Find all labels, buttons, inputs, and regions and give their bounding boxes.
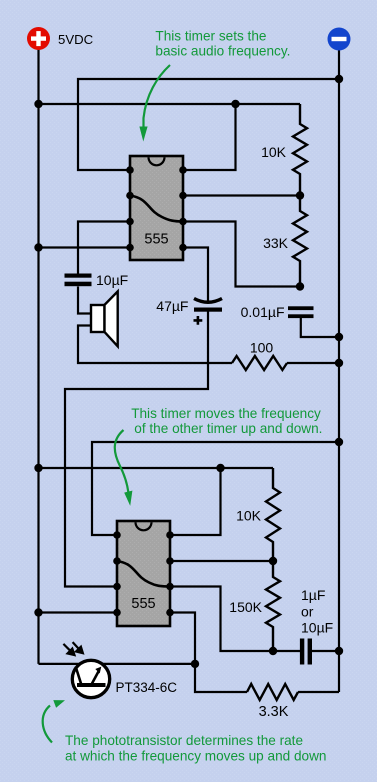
wire +5V row to 10K2 top [39,467,274,469]
wire 100 resistor to minus rail [287,362,339,364]
wire IC1 pin L4 to +5V rail [39,246,131,248]
svg-text:100: 100 [250,340,274,356]
resistor R2 33K [293,196,307,287]
capacitor C1 10uF plates [65,274,92,287]
wire IC1 pin R3 to 33K bottom [183,222,300,287]
wire speaker bottom terminal to 100 resistor [78,326,232,364]
annotation top arrow [144,65,171,127]
svg-text:at which the frequency moves u: at which the frequency moves up and down [65,749,326,764]
svg-text:10K: 10K [236,508,262,524]
wire 10K bottom to IC1 pin R2 [183,194,300,196]
svg-text:This timer moves the frequency: This timer moves the frequency [131,406,321,421]
capacitor C2 47uF polarized [194,299,223,325]
svg-text:basic audio frequency.: basic audio frequency. [155,44,290,59]
svg-text:or: or [301,604,314,620]
wire IC1 pin R4 to 47uF top [183,248,208,302]
phototransistor Q1 PT334-6C [72,660,109,697]
wire phototransistor row [39,663,196,665]
svg-text:47µF: 47µF [156,298,188,314]
speaker SP1 [91,291,118,346]
svg-text:This timer sets the: This timer sets the [155,28,266,43]
svg-text:10µF: 10µF [301,620,333,636]
wire +5V rail [37,49,39,664]
wire to IC1 pin R1 [183,104,236,170]
capacitor C4 1uF/10uF plates [300,639,312,665]
svg-text:3.3K: 3.3K [259,704,289,720]
capacitor C3 0.01uF plates [288,306,314,318]
wire node to 3.3K [195,664,247,692]
svg-text:0.01µF: 0.01µF [241,304,285,320]
svg-text:555: 555 [131,596,155,612]
svg-text:5VDC: 5VDC [58,32,94,47]
annotation middle arrow [115,430,129,492]
light arrows into phototransistor [63,642,83,655]
svg-text:1µF: 1µF [301,587,325,603]
resistor R1 10K [293,104,307,196]
resistor R5 150K [266,561,280,651]
op-amp U1 555 body [130,156,183,260]
wire 47uF bottom to IC2 pin L3 [65,312,208,587]
+5V terminal [27,27,50,50]
wire 10K2 bottom to IC2 pin R2 [170,560,273,562]
wire 150K bottom to 1uF cap [273,650,300,652]
U1 pin dots [126,166,187,251]
op-amp U2 555 body [117,521,170,626]
minus terminal [328,28,351,51]
svg-text:150K: 150K [229,599,262,615]
svg-text:The phototransistor determines: The phototransistor determines the rate [65,733,303,748]
svg-text:10K: 10K [261,144,287,160]
wire IC2 pin L4 to +5V rail [39,611,118,613]
wire IC2 pin R4 down to node [170,613,195,664]
wire IC1 ground loop to pin L1 [78,79,339,170]
wire IC1 pin L3 to 10uF top [78,222,130,274]
wire 10uF bottom to speaker top terminal [78,287,91,314]
wire 3.3K to minus rail [298,691,339,693]
wire to IC2 pin R1 [170,468,221,535]
annotation bottom arrow [43,706,52,743]
wire IC2 ground loop to pin L1 [92,442,339,535]
wire minus rail [338,50,340,692]
wire IC2 pin R3 to 150K bottom [170,587,273,652]
resistor R6 3.3K [247,684,298,700]
svg-text:of the other timer up and down: of the other timer up and down. [134,421,322,436]
U2 pin dots [113,531,174,616]
resistor R3 100 [232,356,287,370]
svg-text:555: 555 [144,232,168,248]
wire +5V to 10K top [39,103,301,105]
wire 0.01uF bottom to minus rail [301,318,339,337]
svg-text:10µF: 10µF [96,272,128,288]
wire 1uF cap to minus rail [312,650,339,652]
svg-text:33K: 33K [263,235,289,251]
resistor R4 10K (second timer) [266,468,280,561]
svg-text:PT334-6C: PT334-6C [116,680,178,695]
